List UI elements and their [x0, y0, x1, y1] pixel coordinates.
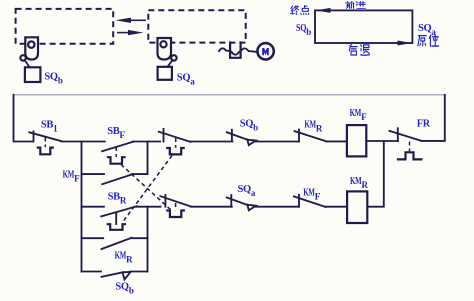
- label SQb (bottom branch): [115, 282, 133, 296]
- right branch bar lower (node after SBR): [147, 207, 149, 272]
- backward arrowhead (bottom edge, pointing right): [398, 41, 412, 46]
- limit switch SQa (mechanical, under right table): [158, 38, 177, 80]
- wire SQa to KMF-NC: [256, 206, 299, 208]
- leadscrew nut bracket: [230, 43, 241, 58]
- label SQb (mechanical): [44, 71, 62, 85]
- stop button SB1 (NC pushbutton): [29, 131, 61, 154]
- motor M: [257, 43, 273, 59]
- text 前进 (forward): [345, 1, 365, 8]
- left branch bar (node after SB1): [81, 142, 83, 272]
- contactor coil KMR: [347, 191, 367, 223]
- wire SBR to SBF-NC: [137, 206, 161, 208]
- label SQa (travel diagram right): [418, 23, 436, 37]
- svg-text:SQa: SQa: [238, 184, 256, 198]
- wire coil KMF to FR: [366, 140, 398, 142]
- label SQa (row 2): [238, 184, 256, 198]
- label KMR (auxiliary): [115, 251, 134, 265]
- limit switch contact SQa NC (row 2): [227, 195, 256, 210]
- svg-text:SBR: SBR: [108, 191, 127, 205]
- interlock NC contact of SBF (row 2): [160, 195, 190, 217]
- top supply rail (faint): [14, 94, 445, 96]
- arrow left (table moving left): [116, 18, 147, 23]
- label SQa (mechanical): [177, 73, 195, 87]
- wire coil KMR up to row 1: [367, 141, 384, 206]
- svg-text:SBF: SBF: [107, 126, 125, 140]
- label SQb (travel diagram left): [296, 23, 311, 37]
- svg-text:SQa: SQa: [418, 23, 436, 37]
- svg-text:SQb: SQb: [296, 23, 311, 37]
- svg-text:KMR: KMR: [304, 120, 323, 134]
- label KMF (row 2): [303, 187, 321, 201]
- label FR: [417, 119, 431, 130]
- svg-text:FR: FR: [417, 119, 431, 130]
- leadscrew shaft (wavy line): [219, 48, 256, 52]
- svg-text:KMF: KMF: [303, 187, 321, 201]
- wire SBF-NC to SQa: [191, 206, 232, 208]
- wire SBR-NC to SQb: [190, 141, 232, 143]
- text 原位 (home position): [418, 35, 439, 47]
- svg-text:KMF: KMF: [350, 108, 368, 122]
- label KMF (coil): [350, 108, 368, 122]
- travel loop rectangle: [315, 10, 412, 43]
- self holding contact KMR (NO auxiliary): [82, 238, 148, 249]
- mechanical link SBR to its NC contact (dashed): [122, 156, 172, 224]
- limit switch contact SQb NC (row 1): [227, 130, 256, 145]
- svg-text:SB1: SB1: [41, 120, 58, 134]
- svg-text:SQb: SQb: [44, 71, 62, 85]
- wire SQb to KMR-NC: [256, 141, 299, 143]
- workbench table (right dashed rectangle): [148, 10, 245, 42]
- wire SB1 to SBF: [62, 141, 105, 143]
- interlock contact KMF NC (row 2): [294, 195, 326, 207]
- limit switch SQb (mechanical, under left table): [20, 37, 40, 82]
- wire KMR-NC to coil KMF: [326, 140, 347, 142]
- label SBF: [107, 126, 125, 140]
- svg-text:SQa: SQa: [177, 73, 195, 87]
- workbench table (left dashed rectangle): [16, 9, 114, 44]
- interlock NC contact of SBR (row 1): [159, 129, 191, 155]
- interlock contact KMR NC (row 1): [295, 130, 327, 142]
- label KMR (coil): [350, 176, 369, 190]
- contactor coil KMF: [347, 125, 366, 156]
- label KMF (auxiliary): [63, 169, 81, 183]
- wire KMF-NC to coil KMR: [326, 206, 348, 208]
- row 2 wire from bar to SBR: [82, 206, 104, 208]
- wire SBF to SBR-NC: [133, 141, 160, 143]
- thermal relay contact FR (NC): [390, 128, 422, 159]
- left supply rail: [14, 95, 33, 142]
- forward start button SBF (NO pushbutton): [102, 142, 133, 164]
- reverse start button SBR (NO pushbutton): [101, 206, 137, 230]
- right branch bar upper (node after SBF): [147, 142, 149, 175]
- svg-text:KMF: KMF: [63, 169, 81, 183]
- svg-text:KMR: KMR: [350, 176, 369, 190]
- limit switch contact SQb NO (bottom branch): [82, 272, 148, 280]
- self holding contact KMF (NO auxiliary): [82, 174, 148, 184]
- text 终点 (end point): [290, 5, 308, 14]
- label KMR (row 1): [304, 120, 323, 134]
- right supply rail: [421, 95, 444, 141]
- label SQb (row 1): [240, 118, 258, 132]
- forward arrowhead (top edge, pointing left): [316, 8, 331, 13]
- svg-text:KMR: KMR: [115, 251, 134, 265]
- text 后退 (backward): [349, 45, 369, 56]
- svg-text:SQb: SQb: [240, 118, 258, 132]
- svg-text:SQb: SQb: [115, 282, 133, 296]
- label SB1: [41, 120, 58, 134]
- label SBR: [108, 191, 127, 205]
- mechanical link SBF to its NC contact (dashed): [121, 165, 171, 211]
- arrow right (table moving right): [117, 30, 144, 35]
